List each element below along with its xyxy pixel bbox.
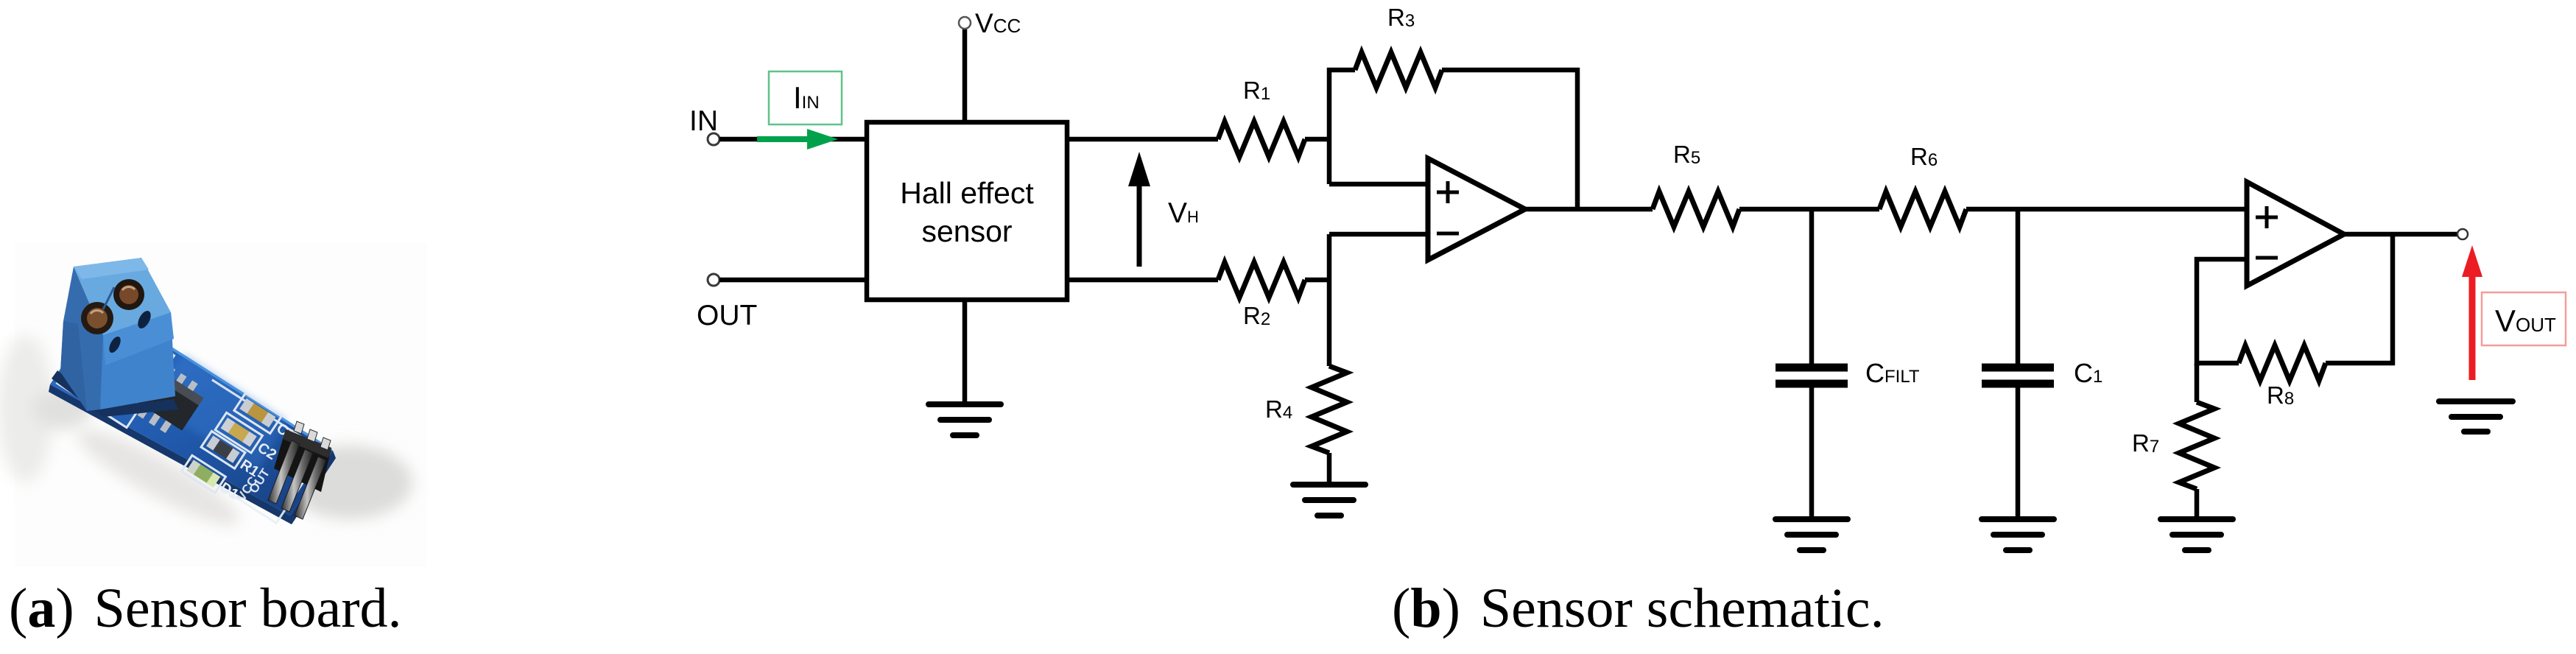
hall effect sensor block U1 (867, 122, 1067, 300)
node A vertical (R1 / R3 / op-amp + input) (1327, 68, 1332, 184)
wire op-amp U2 - input feedback (2197, 259, 2247, 366)
svg-text:OUT: OUT (697, 300, 757, 331)
PCB side face (49, 384, 336, 524)
ground under CFILT (1776, 519, 1848, 550)
wire hall top output to R1 (1067, 137, 1218, 142)
power VCC stem (963, 29, 968, 122)
wire OUT to hall sensor (719, 278, 867, 283)
wire R6 to op-amp U2 + input (1966, 207, 2247, 212)
svg-text:sensor: sensor (921, 214, 1012, 248)
slit between terminals (103, 287, 114, 309)
wire R1 to node A (1305, 137, 1331, 142)
node VOUT terminal (2457, 229, 2468, 239)
resistor R8 (2239, 345, 2326, 381)
label box IIN (769, 71, 842, 124)
ground under C1 (1982, 519, 2054, 550)
PCB sheen (147, 354, 287, 471)
PCB top edge highlight (151, 335, 331, 450)
IC SOIC-8 (122, 356, 208, 440)
capacitor CFILT (1776, 368, 1848, 384)
wire hall bottom output to R2 (1067, 278, 1218, 283)
PCB top face (50, 304, 333, 516)
wire R7 to ground (2195, 489, 2200, 519)
wire output vertical to op-amp U2 output (2390, 234, 2396, 365)
resistor R6 (1879, 191, 1966, 227)
resistor R4 (1312, 366, 1347, 453)
screw hole 1 (front) (81, 302, 113, 334)
wire R3 to feedback vertical (1442, 68, 1580, 73)
resistor R1 (1218, 122, 1305, 157)
ground reference for VOUT (2439, 401, 2513, 432)
wire CFILT to ground (1809, 387, 1815, 519)
resistor R3 (1355, 52, 1442, 88)
resistor R7 (2195, 363, 2200, 402)
node IN terminal (708, 133, 719, 145)
op-amp U2 (2247, 182, 2344, 286)
wire R2 to node B (1305, 278, 1331, 283)
silkscreen frame (board-local) (57, 312, 324, 524)
wire op-amp U1 output to R5 (1525, 207, 1653, 212)
wire node B to op-amp - input (1329, 232, 1428, 237)
ground under R4 (1293, 485, 1365, 516)
front slots (136, 309, 154, 331)
wire C1 to ground (2016, 387, 2021, 519)
terminal block front face (100, 312, 175, 409)
header pins (268, 440, 326, 519)
wire R5 to R6 (1739, 207, 1879, 212)
svg-text:(b) Sensor schematic.: (b) Sensor schematic. (1392, 577, 1885, 639)
wire node A to R3 (1327, 68, 1355, 73)
wire IN to hall sensor (719, 137, 867, 142)
photo backdrop (15, 243, 427, 567)
ground under hall sensor (929, 404, 1001, 435)
wire feedback vertical to op-amp U1 output (1575, 68, 1580, 209)
svg-text:Hall effect: Hall effect (900, 176, 1034, 210)
node OUT terminal (708, 274, 719, 286)
resistor R2 (1218, 262, 1305, 298)
SMD components C1 C2 R1 D1 with silkscreen boxes (182, 387, 317, 521)
terminal block left face (60, 267, 103, 411)
node B vertical (R2 / R4 / op-amp - input) (1327, 234, 1332, 366)
terminal block base shadow (52, 370, 178, 417)
label box VOUT (2482, 292, 2566, 345)
node VCC terminal (959, 17, 971, 29)
current arrow IIN (green) (757, 129, 838, 150)
svg-text:IN: IN (689, 105, 718, 137)
screw hole 2 (back) (113, 279, 144, 310)
capacitor C1 (1982, 368, 2054, 384)
voltage arrow VH (1128, 152, 1150, 267)
pin header base (274, 429, 331, 492)
svg-text:(a) Sensor board.: (a) Sensor board. (9, 577, 402, 639)
capacitor CFILT stem (1809, 209, 1815, 364)
op-amp U1 (1428, 158, 1525, 260)
terminal block top face (74, 258, 171, 335)
wire op-amp U2 output to VOUT terminal (2344, 232, 2457, 237)
voltage arrow VOUT (red) (2462, 245, 2482, 380)
capacitor C1 stem (2016, 209, 2021, 364)
resistor R5 (1653, 191, 1739, 227)
wire R8 to output vertical (2326, 361, 2395, 366)
wire hall sensor to ground (963, 300, 968, 404)
ground under R7 (2161, 519, 2233, 550)
wire node C to R8 (2197, 361, 2239, 366)
board shadow (287, 446, 412, 519)
wire R4 to ground (1327, 453, 1332, 485)
wire node A to op-amp + input (1329, 182, 1428, 187)
